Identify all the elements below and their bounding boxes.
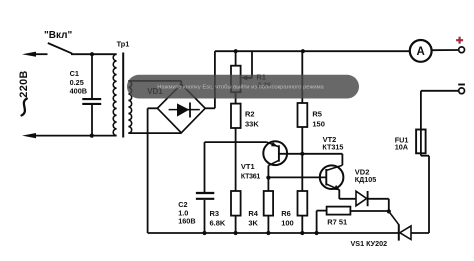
svg-text:VT1: VT1	[241, 162, 255, 171]
svg-text:R4: R4	[248, 209, 258, 218]
svg-text:6.8K: 6.8K	[210, 218, 226, 227]
svg-text:C1: C1	[70, 69, 79, 78]
svg-text:VS1 КУ202: VS1 КУ202	[351, 239, 388, 248]
svg-text:100: 100	[281, 218, 294, 227]
svg-text:R5: R5	[312, 109, 322, 118]
svg-text:10A: 10A	[395, 143, 409, 152]
svg-text:Тр1: Тр1	[117, 39, 130, 48]
svg-text:R7 51: R7 51	[327, 218, 347, 227]
svg-text:C2: C2	[178, 200, 187, 209]
svg-text:R3: R3	[210, 209, 220, 218]
svg-text:3K: 3K	[248, 218, 258, 227]
svg-text:R2: R2	[245, 109, 255, 118]
svg-text:33K: 33K	[245, 119, 259, 128]
svg-text:"Вкл": "Вкл"	[44, 30, 72, 41]
svg-text:220В: 220В	[18, 70, 30, 97]
svg-text:150: 150	[312, 119, 325, 128]
svg-text:R6: R6	[281, 209, 291, 218]
svg-text:400В: 400В	[70, 87, 87, 96]
svg-text:КТ315: КТ315	[322, 142, 343, 151]
svg-text:КТ361: КТ361	[241, 173, 261, 180]
svg-text:A: A	[417, 46, 425, 58]
svg-text:160В: 160В	[178, 217, 195, 226]
svg-text:Нажмите кнопку Esc, чтобы выйт: Нажмите кнопку Esc, чтобы выйти из полно…	[157, 84, 324, 91]
svg-text:КД105: КД105	[355, 175, 377, 184]
